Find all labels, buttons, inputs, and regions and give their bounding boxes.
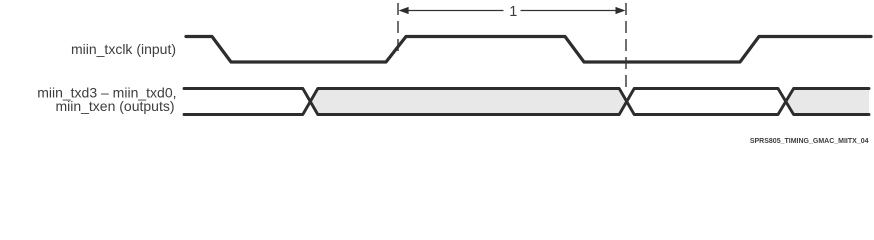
dashed reference line at bus crossing 2 [625, 3, 627, 87]
svg-text:miin_txen (outputs): miin_txen (outputs) [55, 98, 174, 114]
svg-text:SPRS805_TIMING_GMAC_MIITX_04: SPRS805_TIMING_GMAC_MIITX_04 [750, 138, 869, 145]
bus wire A (starts top) [184, 89, 869, 115]
svg-text:1: 1 [509, 4, 517, 20]
dimension arrow line left part [408, 10, 504, 12]
bus shaded segment 2 (after crossing 3) [786, 89, 869, 115]
bus shaded segment 1 (between crossing 1 and crossing 2) [310, 89, 626, 115]
arrowhead left [399, 7, 409, 14]
dashed reference line at clock rising edge [397, 3, 399, 53]
dimension arrow line right part [521, 10, 618, 12]
arrowhead right [616, 7, 626, 14]
bus wire B (starts bottom) [184, 89, 869, 115]
svg-text:miin_txclk (input): miin_txclk (input) [71, 41, 176, 57]
clock waveform miin_txclk [186, 37, 871, 63]
